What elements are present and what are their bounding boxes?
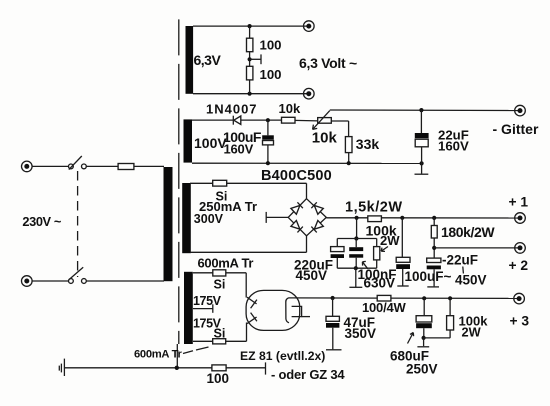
svg-text:+ 3: + 3 xyxy=(510,314,530,329)
svg-text:100uF~: 100uF~ xyxy=(405,269,452,284)
svg-text:Si: Si xyxy=(214,277,226,291)
svg-text:B400C500: B400C500 xyxy=(261,168,332,184)
svg-text:- Gitter: - Gitter xyxy=(493,121,539,137)
svg-text:160V: 160V xyxy=(224,142,254,157)
svg-text:600mA Tr: 600mA Tr xyxy=(198,255,254,270)
svg-text:EZ 81 (evtll.2x): EZ 81 (evtll.2x) xyxy=(240,349,325,363)
svg-text:6,3 Volt ~: 6,3 Volt ~ xyxy=(299,55,357,71)
svg-text:600mA Tr: 600mA Tr xyxy=(134,348,183,360)
svg-text:160V: 160V xyxy=(438,139,469,154)
svg-text:175V: 175V xyxy=(193,294,222,308)
svg-text:- oder GZ 34: - oder GZ 34 xyxy=(271,367,345,382)
svg-text:+ 1: + 1 xyxy=(509,195,529,210)
svg-text:10k: 10k xyxy=(312,130,338,147)
svg-text:300V: 300V xyxy=(194,212,224,226)
svg-text:450V: 450V xyxy=(455,273,487,288)
svg-text:100/4W: 100/4W xyxy=(362,300,407,315)
svg-text:+ 2: + 2 xyxy=(509,258,529,273)
svg-text:2W: 2W xyxy=(380,233,400,248)
svg-text:1,5k/2W: 1,5k/2W xyxy=(345,200,403,216)
svg-text:630V: 630V xyxy=(364,276,396,291)
svg-text:10k: 10k xyxy=(279,101,301,116)
svg-text:100: 100 xyxy=(260,67,282,82)
svg-text:100: 100 xyxy=(260,38,282,53)
svg-text:1N4007: 1N4007 xyxy=(206,102,258,117)
svg-text:2W: 2W xyxy=(462,325,482,340)
svg-text:33k: 33k xyxy=(356,136,380,152)
svg-text:100: 100 xyxy=(207,371,230,386)
svg-text:Si: Si xyxy=(214,326,226,340)
svg-text:6,3V: 6,3V xyxy=(194,52,222,68)
svg-text:180k/2W: 180k/2W xyxy=(441,224,495,240)
svg-text:450V: 450V xyxy=(296,268,328,283)
svg-text:350V: 350V xyxy=(345,326,377,341)
svg-text:230V ~: 230V ~ xyxy=(22,214,61,229)
svg-text:250V: 250V xyxy=(406,361,438,376)
svg-text:-22uF: -22uF xyxy=(442,253,478,268)
